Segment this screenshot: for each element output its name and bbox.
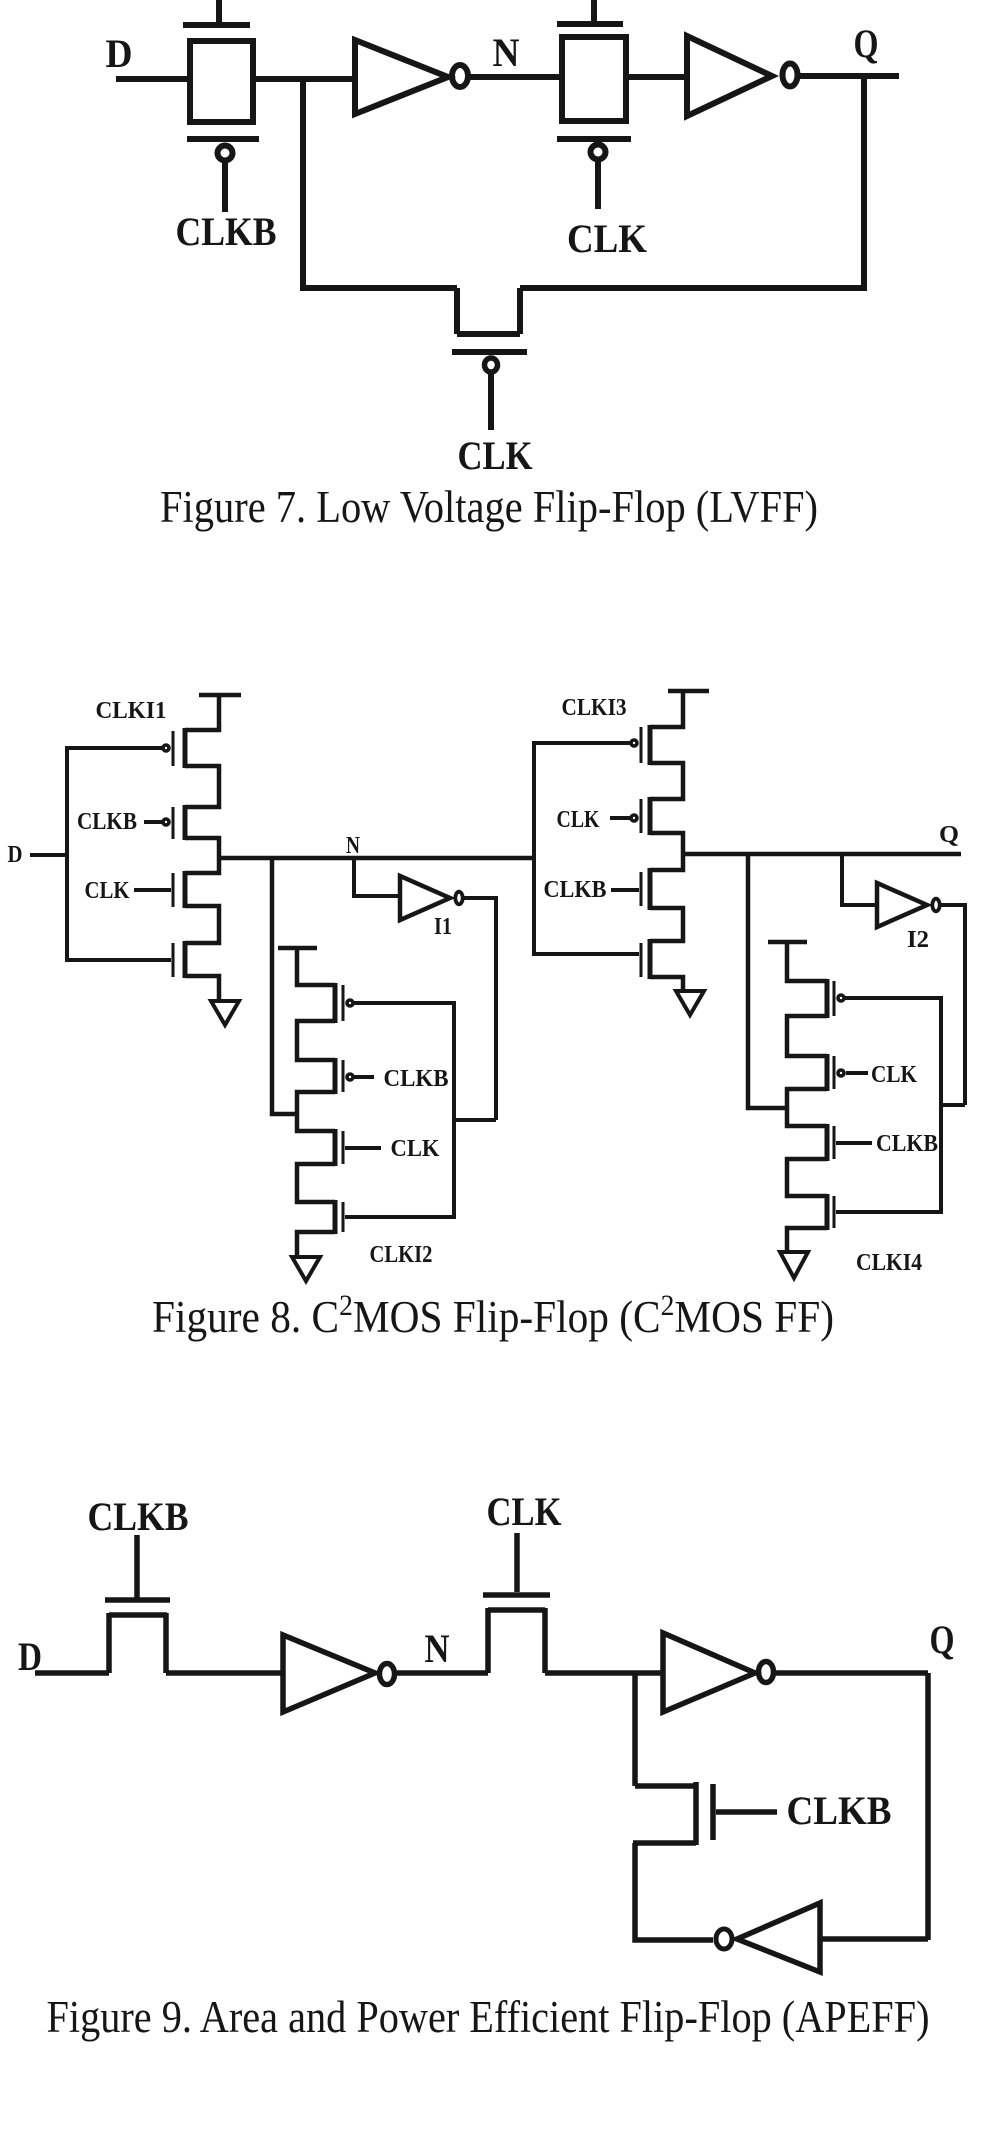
svg-text:N: N bbox=[493, 30, 520, 75]
TG2 bottom gate bar bbox=[557, 136, 631, 142]
wire M23 to M24 bbox=[297, 1164, 335, 1202]
transistor M13 bbox=[173, 871, 185, 908]
wire Q to CLKI4 rail bbox=[748, 854, 789, 1108]
transistor M24 bbox=[335, 1200, 343, 1234]
wire input rail D bbox=[67, 746, 171, 962]
svg-text:CLK: CLK bbox=[871, 1062, 917, 1088]
wire TG1 top gate stem bbox=[216, 0, 222, 22]
transistor M12 bbox=[163, 805, 185, 840]
wire feedback right bbox=[520, 285, 864, 291]
svg-text:CLK: CLK bbox=[391, 1136, 440, 1162]
svg-text:N: N bbox=[425, 1626, 450, 1671]
wire Q bbox=[774, 1670, 928, 1676]
inverter U4 bbox=[663, 1633, 755, 1712]
svg-text:CLK: CLK bbox=[487, 1489, 562, 1534]
wire CLK dash M32 bbox=[610, 816, 631, 820]
ground CLKI3 bbox=[676, 991, 704, 1015]
VDD bar CLKI2 bbox=[278, 946, 317, 951]
wire M44 to ground bbox=[787, 1228, 827, 1252]
svg-text:CLKI1: CLKI1 bbox=[96, 698, 167, 724]
transistor M32 bbox=[631, 797, 650, 835]
wire node Q bbox=[683, 852, 961, 857]
U1 output bubble bbox=[452, 65, 468, 87]
TG2 bottom gate bubble bbox=[591, 145, 606, 160]
wire U5 input bbox=[820, 1936, 928, 1942]
inverter I2 bbox=[877, 883, 927, 927]
wire D input bbox=[35, 1670, 109, 1676]
wire VDD to M41 bbox=[787, 942, 827, 981]
wire Q feedback drop bbox=[861, 76, 867, 291]
wire junction to keeper bbox=[632, 1673, 638, 1786]
svg-text:D: D bbox=[106, 31, 133, 76]
wire M43 to M44 bbox=[787, 1159, 827, 1196]
TG1 bottom gate bubble bbox=[218, 146, 233, 161]
wire D bbox=[30, 853, 67, 857]
wire TG1 output bbox=[253, 76, 355, 82]
transistor M42 bbox=[827, 1054, 844, 1091]
svg-text:CLK: CLK bbox=[557, 807, 600, 833]
wire CLKI2 feedback rail bbox=[454, 1001, 496, 1219]
wire CLK dash M42 bbox=[846, 1071, 868, 1075]
wire M44 gate bbox=[836, 1210, 941, 1214]
VDD bar CLKI1 bbox=[199, 693, 241, 698]
wire M22 to M23 bbox=[297, 1092, 335, 1131]
wire M11 to M12 bbox=[185, 766, 219, 807]
TG1 bottom gate bar bbox=[187, 136, 259, 142]
transistor M41 bbox=[827, 979, 844, 1018]
wire CLKB dash M33 bbox=[611, 888, 639, 892]
svg-text:CLKI4: CLKI4 bbox=[856, 1250, 922, 1276]
wire feedback left bbox=[303, 285, 457, 291]
transistor M43 bbox=[827, 1124, 834, 1161]
I1 bubble bbox=[455, 892, 462, 905]
wire CLKB dash M43 bbox=[836, 1141, 872, 1145]
wire TG2 top gate stem bbox=[591, 0, 597, 21]
svg-text:CLKB: CLKB bbox=[77, 809, 137, 835]
transistor M1 channel bbox=[457, 288, 520, 334]
wire Q output bbox=[800, 73, 899, 79]
wire TG2 output bbox=[626, 74, 687, 80]
transmission gate TG1 box bbox=[190, 41, 253, 122]
wire M42 to M43 bbox=[787, 1089, 827, 1126]
svg-text:CLKB: CLKB bbox=[88, 1494, 189, 1539]
wire Q feedback drop bbox=[925, 1673, 931, 1940]
ground CLKI2 bbox=[292, 1257, 320, 1281]
transistor M31 bbox=[631, 725, 650, 765]
wire M1 gate to CLK bbox=[488, 374, 494, 430]
wire node A junction drop bbox=[300, 79, 306, 291]
svg-text:I1: I1 bbox=[434, 914, 452, 940]
wire CLK dash M23 bbox=[345, 1146, 381, 1150]
wire CLK gate stem bbox=[514, 1533, 520, 1592]
U4 bubble bbox=[759, 1662, 774, 1683]
svg-text:CLKI2: CLKI2 bbox=[370, 1242, 433, 1268]
wire M14 to ground bbox=[185, 976, 219, 1001]
wire M91 to U3 bbox=[166, 1670, 283, 1676]
svg-text:Figure 8. C2MOS Flip-Flop (C2M: Figure 8. C2MOS Flip-Flop (C2MOS FF) bbox=[152, 1289, 834, 1342]
wire M41 to M42 bbox=[787, 1016, 827, 1056]
wire M93 gate to CLKB bbox=[716, 1809, 777, 1815]
inverter U1 bbox=[355, 40, 448, 114]
svg-text:D: D bbox=[8, 842, 23, 868]
transistor M44 bbox=[827, 1194, 834, 1230]
transistor M92 gate bar bbox=[483, 1592, 550, 1598]
svg-text:CLKB: CLKB bbox=[544, 877, 607, 903]
wire node N bbox=[219, 856, 536, 861]
svg-text:CLKB: CLKB bbox=[876, 1131, 938, 1157]
wire M31 to M32 bbox=[650, 763, 683, 799]
svg-text:CLKB: CLKB bbox=[176, 209, 277, 254]
transistor M33 bbox=[641, 868, 650, 910]
svg-text:CLK: CLK bbox=[85, 878, 130, 904]
wire keeper to feedback bbox=[635, 1843, 713, 1940]
inverter U2 bbox=[687, 36, 772, 116]
wire M21 gate bbox=[354, 1001, 454, 1005]
svg-text:CLKB: CLKB bbox=[787, 1788, 892, 1833]
transistor M91 gate bar bbox=[105, 1597, 170, 1603]
svg-text:Q: Q bbox=[854, 21, 879, 66]
U5 bubble bbox=[716, 1929, 732, 1949]
wire CLKB gate stem bbox=[134, 1535, 140, 1598]
wire M21 to M22 bbox=[297, 1021, 335, 1060]
wire N bbox=[470, 74, 562, 80]
svg-text:Figure 7. Low Voltage Flip-Flo: Figure 7. Low Voltage Flip-Flop (LVFF) bbox=[160, 482, 818, 532]
wire CLK dash bbox=[134, 888, 171, 892]
wire M24 to ground bbox=[297, 1232, 335, 1257]
M91 channel bbox=[109, 1613, 167, 1673]
svg-text:Figure 9. Area and Power Effic: Figure 9. Area and Power Efficient Flip-… bbox=[47, 1992, 930, 2042]
ground CLKI1 bbox=[211, 1001, 239, 1025]
wire TG2 gate to CLK bbox=[595, 161, 601, 209]
inverter I1 bbox=[400, 876, 450, 920]
wire N bbox=[394, 1670, 488, 1676]
wire TG1 gate to CLKB bbox=[222, 162, 228, 212]
M1 gate bar bbox=[452, 349, 527, 355]
wire M11 gate rail bbox=[67, 746, 163, 750]
transistor M14 bbox=[173, 941, 185, 978]
wire M12 to node N bbox=[185, 838, 219, 873]
wire I1 output bbox=[464, 898, 496, 1120]
transmission gate TG2 box bbox=[562, 37, 626, 121]
M1 gate bubble bbox=[485, 358, 498, 372]
wire D input bbox=[116, 76, 190, 82]
wire VDD to M31 bbox=[650, 691, 683, 727]
TG1 top gate bar bbox=[183, 22, 250, 28]
transistor M21 bbox=[335, 983, 353, 1023]
transistor M23 bbox=[335, 1129, 343, 1166]
svg-text:CLK: CLK bbox=[567, 216, 647, 261]
ground CLKI4 bbox=[780, 1252, 808, 1278]
wire M33 to M34 bbox=[650, 908, 683, 941]
wire CLKI4 feedback rail bbox=[941, 996, 965, 1214]
wire M34 to ground bbox=[650, 977, 683, 991]
wire VDD to M21 bbox=[297, 948, 335, 985]
wire VDD to M11 bbox=[185, 695, 219, 730]
wire CLKB dash M22 bbox=[354, 1075, 374, 1079]
wire M92 to U4 bbox=[545, 1670, 663, 1676]
inverter U3 bbox=[283, 1635, 375, 1712]
wire I2 output bbox=[941, 905, 965, 1105]
transistor M22 bbox=[335, 1058, 353, 1094]
wire CLKB dash bbox=[144, 820, 163, 824]
inverter U5 feedback bbox=[737, 1903, 820, 1972]
TG2 top gate bar bbox=[557, 21, 623, 27]
transistor M93 keeper bbox=[633, 1782, 713, 1845]
transistor M34 bbox=[641, 939, 650, 979]
svg-text:N: N bbox=[346, 833, 361, 859]
I2 bubble bbox=[932, 899, 939, 912]
U2 output bubble bbox=[783, 64, 798, 87]
svg-text:CLKI3: CLKI3 bbox=[562, 695, 627, 721]
VDD bar CLKI4 bbox=[768, 940, 807, 945]
VDD bar CLKI3 bbox=[668, 689, 709, 694]
wire N to I1 bbox=[354, 858, 400, 896]
svg-text:I2: I2 bbox=[907, 927, 929, 953]
wire Q to I2 bbox=[842, 854, 877, 905]
svg-text:Q: Q bbox=[939, 822, 959, 848]
wire M24 gate bbox=[345, 1215, 454, 1219]
svg-text:Q: Q bbox=[930, 1617, 955, 1662]
U3 bubble bbox=[380, 1664, 395, 1685]
svg-text:CLKB: CLKB bbox=[384, 1066, 449, 1092]
wire N to CLKI2 rail bbox=[272, 858, 299, 1114]
transistor M11 bbox=[163, 728, 185, 768]
wire M31 gate rail bbox=[534, 741, 631, 745]
wire M32 to node Q bbox=[650, 833, 683, 870]
svg-text:CLK: CLK bbox=[458, 433, 533, 478]
wire M13 to M14 bbox=[185, 906, 219, 943]
wire M41 gate bbox=[845, 996, 941, 1000]
wire CLKI3 input rail bbox=[534, 741, 639, 956]
M92 channel bbox=[488, 1608, 545, 1673]
